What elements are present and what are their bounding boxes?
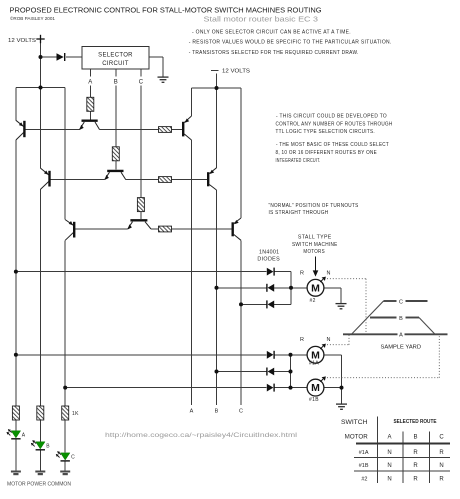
svg-text:A: A [190,409,194,415]
svg-text:A: A [22,432,26,438]
svg-text:- THE MOST BASIC OF THESE COU: - THE MOST BASIC OF THESE COULD SELECT [276,142,389,148]
svg-text:DIODES: DIODES [257,257,280,263]
svg-text:#1B: #1B [359,463,369,469]
svg-text:R: R [300,337,304,343]
svg-text:C: C [439,435,444,441]
svg-text:R: R [413,450,418,456]
svg-text:B: B [46,443,50,449]
svg-text:#1A: #1A [309,361,319,367]
svg-text:R: R [413,477,418,483]
svg-text:B: B [399,316,403,322]
svg-text:PROPOSED ELECTRONIC CONTROL FO: PROPOSED ELECTRONIC CONTROL FOR STALL-MO… [10,5,322,14]
svg-text:CIRCUIT: CIRCUIT [102,61,128,67]
svg-text:IS STRAIGHT THROUGH: IS STRAIGHT THROUGH [269,210,329,216]
svg-text:B: B [215,409,219,415]
svg-text:C: C [399,299,403,305]
svg-text:CONTROL ANY NUMBER OF ROUTES T: CONTROL ANY NUMBER OF ROUTES THROUGH [276,122,393,128]
svg-text:12 VOLTS: 12 VOLTS [8,38,36,44]
svg-text:#2: #2 [361,477,367,483]
svg-text:B: B [114,80,118,86]
svg-text:MOTORS: MOTORS [303,249,325,255]
svg-text:- TRANSISTORS SELECTED FOR THE: - TRANSISTORS SELECTED FOR THE REQUIRED … [189,50,359,56]
svg-text:SELECTOR: SELECTOR [98,53,133,59]
svg-text:STALL TYPE: STALL TYPE [298,235,332,241]
svg-text:R: R [300,271,304,277]
svg-text:#2: #2 [310,298,316,304]
svg-text:TTL LOGIC TYPE SELECTION CIRCU: TTL LOGIC TYPE SELECTION CIRCUITS. [276,129,376,135]
svg-text:SWITCH: SWITCH [341,420,368,426]
svg-text:B: B [413,435,417,441]
svg-text:A: A [387,435,391,441]
svg-text:C: C [239,409,243,415]
svg-text:“NORMAL” POSITION OF TURNOUTS: “NORMAL” POSITION OF TURNOUTS [269,203,359,209]
svg-text:Stall motor router basic EC 3: Stall motor router basic EC 3 [204,17,319,24]
svg-text:©ROB PAISLEY 2001: ©ROB PAISLEY 2001 [10,15,55,21]
svg-text:C: C [71,454,75,460]
svg-text:- ONLY ONE SELECTOR CIRCUIT CA: - ONLY ONE SELECTOR CIRCUIT CAN BE ACTIV… [192,29,351,35]
svg-text:N: N [387,477,391,483]
svg-text:SWITCH MACHINE: SWITCH MACHINE [292,242,338,248]
svg-text:A: A [399,333,403,339]
svg-text:- RESISTOR VALUES WOULD BE SPE: - RESISTOR VALUES WOULD BE SPECIFIC TO T… [189,40,392,46]
svg-text:R: R [439,477,444,483]
svg-text:MOTOR: MOTOR [345,435,369,441]
svg-text:A: A [88,80,92,86]
svg-text:N: N [327,337,331,343]
svg-text:- THIS CIRCUIT COULD BE DEVEL: - THIS CIRCUIT COULD BE DEVELOPED TO [276,114,387,120]
svg-text:SAMPLE YARD: SAMPLE YARD [381,345,422,351]
svg-text:#1B: #1B [309,397,319,403]
svg-text:12 VOLTS: 12 VOLTS [222,69,250,75]
svg-text:N: N [439,463,443,469]
svg-text:8, 10 OR 16 DIFFERENT ROUTES B: 8, 10 OR 16 DIFFERENT ROUTES BY ONE [276,150,378,156]
svg-text:SELECTED ROUTE: SELECTED ROUTE [394,419,438,425]
svg-text:N: N [387,450,391,456]
svg-text:MOTOR POWER COMMON: MOTOR POWER COMMON [7,481,71,487]
svg-text:1N4001: 1N4001 [259,250,279,256]
svg-text:R: R [413,463,418,469]
svg-text:#1A: #1A [359,450,369,456]
svg-text:C: C [139,80,144,86]
svg-text:N: N [327,271,331,277]
svg-text:INTEGRATED CIRCUIT.: INTEGRATED CIRCUIT. [276,158,321,164]
svg-text:N: N [387,463,391,469]
svg-text:1K: 1K [72,411,79,417]
svg-text:http://home.cogeco.ca/~rpaisle: http://home.cogeco.ca/~rpaisley4/Circuit… [105,432,297,439]
svg-text:R: R [439,450,444,456]
